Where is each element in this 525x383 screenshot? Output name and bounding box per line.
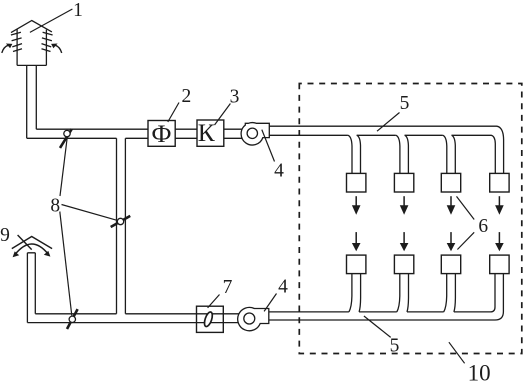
- leader to box 3: [215, 104, 231, 126]
- leader to bottom pump: [264, 294, 276, 312]
- arrow above row2 col3: [447, 232, 456, 251]
- leader 8 to middle valve: [62, 205, 118, 221]
- svg-text:10: 10: [468, 360, 491, 383]
- svg-text:8: 8: [50, 195, 60, 216]
- arrow above row2 col1: [352, 232, 361, 251]
- wire suction main top line: [36, 128, 243, 130]
- leader to top pump: [262, 130, 275, 162]
- valve on bypass branch: [111, 216, 131, 227]
- arrow below row1 col3: [447, 196, 456, 215]
- branch 3 drop lines: [443, 135, 456, 173]
- wire distribution pipe 5 top line with right elbow into branch 4: [269, 126, 503, 173]
- pipe: vertical bypass branch: [117, 138, 126, 313]
- leader to box 7: [208, 295, 220, 308]
- svg-text:7: 7: [223, 277, 233, 298]
- box 7 ellipse element: [203, 311, 214, 327]
- valve on suction main: [60, 129, 72, 148]
- leader to pipe 5: [377, 113, 400, 132]
- arrow above row2 col2: [400, 232, 409, 251]
- unit 1 right hatching: [42, 32, 53, 51]
- wire distribution pipe 5 bottom line segments with swept tees: [269, 135, 495, 173]
- pipe: riser to air release 9: [27, 253, 35, 323]
- vacuum pump unit 1 house body: [11, 21, 52, 66]
- leader 6 lower: [457, 232, 474, 249]
- leader 8 to top valve: [60, 137, 67, 196]
- drop pipe col3 into bottom header: [444, 274, 456, 312]
- teat cup row 2 square col1: [347, 255, 366, 274]
- filter box 2: [148, 121, 175, 147]
- drop pipe col2 into bottom header: [397, 274, 409, 312]
- arrow below row1 col1: [352, 196, 361, 215]
- pipe: bottom main left section top line: [35, 313, 243, 315]
- pipe: bottom main left section bottom line: [27, 322, 243, 324]
- svg-text:6: 6: [478, 216, 488, 237]
- teat cup row 2 square col2: [394, 255, 413, 274]
- leader 6 upper: [457, 196, 475, 219]
- leader 8 to bottom valve: [60, 212, 72, 316]
- leader to bottom header: [364, 316, 391, 337]
- dashed enclosure 10: [299, 84, 522, 354]
- svg-text:Ф: Ф: [151, 119, 171, 148]
- branch 2 drop lines: [396, 135, 409, 173]
- drop pipe col4 elbow: [491, 274, 504, 320]
- svg-text:9: 9: [0, 225, 10, 246]
- teat cup row 2 square col3: [441, 255, 460, 274]
- teat cup row 1 square col4: [490, 173, 509, 192]
- arrow below row1 col4: [495, 196, 504, 215]
- leader to box 2: [168, 103, 179, 123]
- arrow below row1 col2: [400, 196, 409, 215]
- svg-text:4: 4: [274, 160, 284, 181]
- air release 9 roof: [12, 237, 52, 249]
- arrow above row2 col4: [495, 232, 504, 251]
- drop pipe col1 into bottom header: [349, 274, 361, 312]
- unit 1 left intake arrow: [2, 44, 13, 53]
- teat cup row 1 square col1: [347, 173, 366, 192]
- teat cup row 1 square col2: [394, 173, 413, 192]
- wire bottom header top line segments: [269, 311, 491, 313]
- teat cup row 2 square col4: [490, 255, 509, 274]
- svg-text:2: 2: [182, 86, 192, 107]
- svg-text:3: 3: [230, 87, 240, 108]
- valve on bottom main: [67, 309, 78, 329]
- bottom blower pump 4: [238, 307, 269, 330]
- unit 1 right intake arrow: [51, 44, 62, 53]
- pipe: drop from unit 1 to suction main: [27, 65, 37, 138]
- leader to enclosure: [449, 342, 465, 363]
- wire bottom header bottom line: [269, 319, 495, 321]
- wire suction main bottom line (break at branch tee): [27, 137, 243, 139]
- teat cup row 1 square col3: [441, 173, 460, 192]
- svg-text:1: 1: [73, 0, 83, 21]
- leader to unit 1: [30, 9, 73, 32]
- sensor box 7: [197, 306, 224, 332]
- box 3 K: [197, 120, 224, 146]
- air release 9 double arrow arc: [13, 244, 51, 257]
- top blower pump 4: [241, 123, 269, 145]
- svg-text:К: К: [198, 118, 216, 147]
- branch 1 drop lines: [348, 135, 361, 173]
- unit 1 left hatching: [11, 32, 22, 51]
- svg-text:4: 4: [278, 276, 288, 297]
- svg-text:5: 5: [400, 93, 410, 114]
- air release 9 slash: [18, 235, 32, 250]
